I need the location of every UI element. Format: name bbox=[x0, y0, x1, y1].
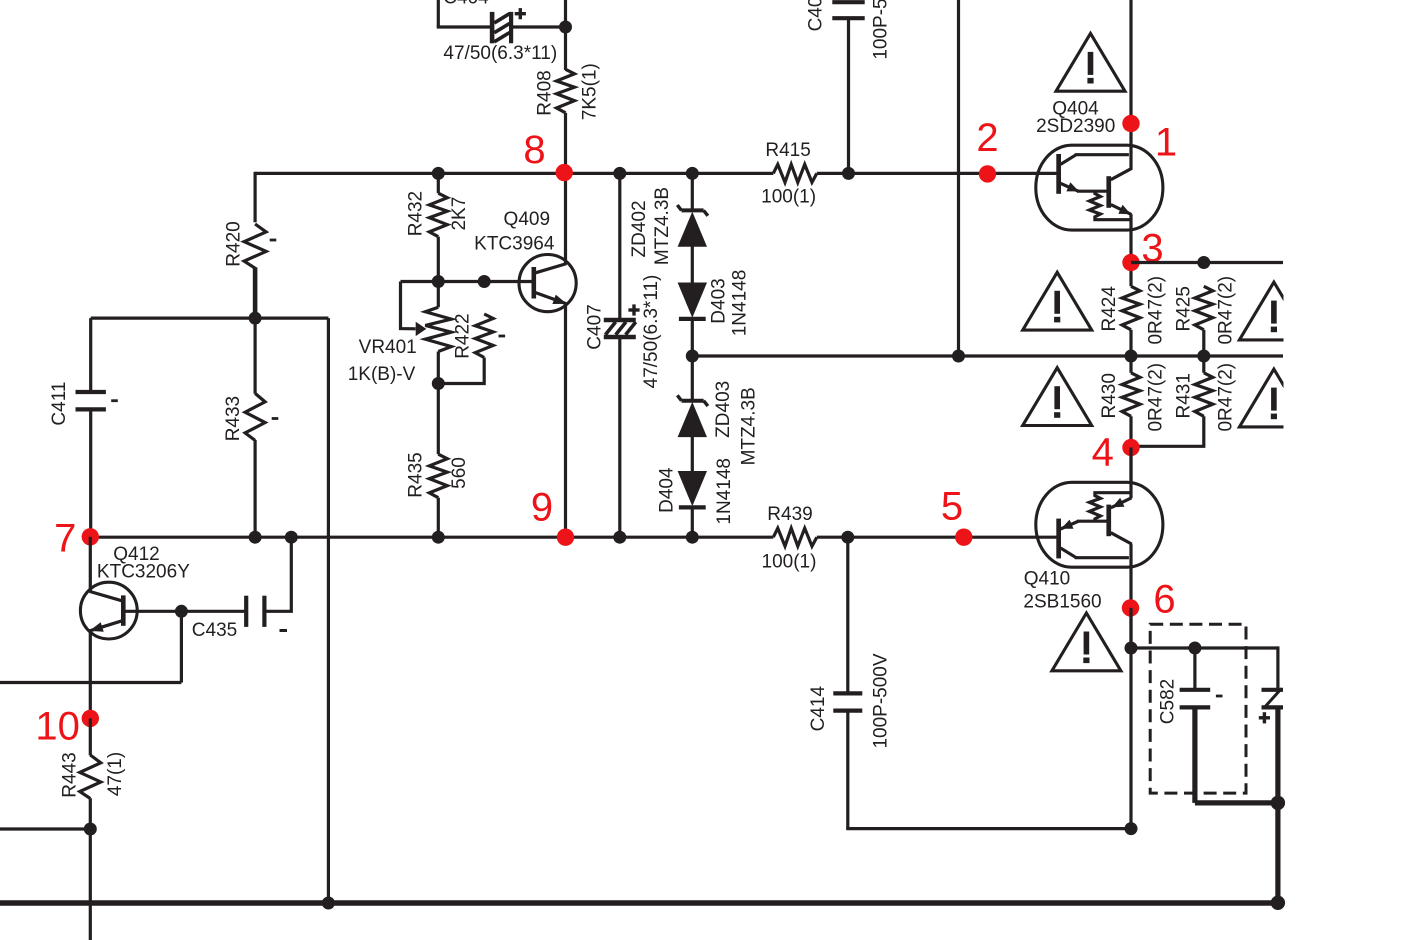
warning triangle right of R425 (clipped) bbox=[1239, 282, 1308, 340]
plus mark right cap bbox=[1259, 716, 1270, 719]
wire C407 bottom lead bbox=[618, 336, 621, 537]
wire row-537 right segment bbox=[817, 536, 1057, 539]
diode D403 bbox=[678, 283, 707, 318]
resistor R424 bbox=[1122, 286, 1140, 330]
svg-text:0R47(2): 0R47(2) bbox=[1146, 276, 1167, 345]
tick C435 bbox=[280, 629, 288, 632]
svg-text:R443: R443 bbox=[60, 752, 81, 797]
resistor R439 bbox=[773, 528, 817, 546]
transistor Q412 emitter arrow bbox=[89, 622, 103, 632]
wire Q410 emitter to node 6 bbox=[1129, 544, 1132, 648]
wire C411 bottom lead bbox=[89, 410, 92, 537]
junction C582 top bbox=[1188, 642, 1201, 655]
junction Q412 base bbox=[175, 605, 188, 618]
wire top-left vertical to C404 bbox=[437, 0, 440, 27]
tick R420 bbox=[270, 239, 277, 242]
resistor R435 bbox=[429, 454, 447, 498]
wire R435 to row-537 bbox=[437, 498, 440, 538]
wire row-281 base bbox=[401, 280, 532, 283]
node 7 bbox=[82, 528, 99, 545]
resistor R408 bbox=[557, 69, 575, 113]
wire node8 to Q409 collector bbox=[564, 173, 567, 264]
junction row-802 bbox=[1271, 796, 1285, 810]
wire x328 vertical bbox=[327, 318, 330, 903]
tick R422 bbox=[499, 335, 506, 338]
junction row-537 C407 bbox=[613, 531, 626, 544]
svg-text:D404: D404 bbox=[656, 467, 677, 513]
tick C582 bbox=[1216, 695, 1223, 698]
junction x958/row-356 bbox=[952, 350, 965, 363]
transistor Q409 base bar bbox=[532, 267, 537, 299]
junction row-537 D404 bbox=[686, 531, 699, 544]
svg-text:2K7: 2K7 bbox=[449, 197, 470, 231]
junction row-8 C407 bbox=[613, 167, 626, 180]
svg-text:C411: C411 bbox=[49, 382, 70, 426]
svg-text:Q409: Q409 bbox=[504, 209, 550, 230]
svg-text:ZD403: ZD403 bbox=[713, 381, 734, 438]
junction R433/row-537 bbox=[249, 531, 262, 544]
wire C582 bottom lead (bold) bbox=[1192, 707, 1197, 803]
junction row-262 R425 bbox=[1197, 256, 1210, 269]
resistor R415 bbox=[773, 164, 817, 182]
junction row-8 R432 bbox=[432, 167, 445, 180]
svg-text:0R47(2): 0R47(2) bbox=[1146, 363, 1167, 432]
resistor R431 bbox=[1195, 373, 1213, 417]
svg-text:7K5(1): 7K5(1) bbox=[580, 63, 601, 120]
svg-text:C407: C407 bbox=[584, 304, 605, 349]
potentiometer VR401 bbox=[425, 307, 451, 351]
svg-text:C435: C435 bbox=[192, 620, 237, 641]
resistor R432 bbox=[429, 193, 447, 237]
svg-text:Q410: Q410 bbox=[1024, 568, 1070, 589]
junction C406/R415 row bbox=[842, 167, 855, 180]
svg-text:2SB1560: 2SB1560 bbox=[1023, 591, 1101, 612]
svg-text:C40: C40 bbox=[805, 0, 826, 31]
capacitor C414 bbox=[833, 691, 862, 695]
svg-text:47/50(6.3*11): 47/50(6.3*11) bbox=[641, 275, 662, 389]
junction row-8 ZD402 bbox=[686, 167, 699, 180]
wire C582 top lead bbox=[1193, 648, 1196, 688]
dashed box C582 bbox=[1150, 624, 1246, 793]
node 8 bbox=[556, 164, 573, 181]
svg-text:R430: R430 bbox=[1099, 373, 1120, 418]
capacitor C404 (electrolytic, hatched) bbox=[490, 12, 495, 43]
wire C414 bottom lead bbox=[846, 711, 849, 829]
svg-text:D403: D403 bbox=[708, 278, 729, 323]
svg-text:MTZ4.3B: MTZ4.3B bbox=[652, 187, 673, 265]
wire row-829 to left edge bbox=[0, 827, 90, 830]
wire Q409 emitter to node 9 bbox=[564, 304, 567, 538]
svg-text:C404: C404 bbox=[443, 0, 489, 8]
svg-text:KTC3964: KTC3964 bbox=[474, 233, 555, 254]
capacitor C435 bbox=[244, 596, 248, 627]
wire R430 to node 4 bbox=[1129, 416, 1132, 483]
svg-text:R432: R432 bbox=[406, 191, 427, 236]
svg-text:KTC3206Y: KTC3206Y bbox=[97, 561, 190, 582]
node 2 bbox=[979, 165, 996, 182]
wire R424 bottom bbox=[1129, 330, 1132, 356]
svg-text:560: 560 bbox=[449, 457, 470, 489]
node 10 bbox=[82, 710, 99, 727]
svg-text:100(1): 100(1) bbox=[761, 187, 816, 208]
zener ZD403 bbox=[682, 399, 704, 403]
svg-text:R433: R433 bbox=[223, 396, 244, 441]
svg-text:R431: R431 bbox=[1174, 373, 1195, 418]
svg-text:1N4148: 1N4148 bbox=[729, 270, 750, 337]
wire ZD403-D404 bbox=[691, 436, 694, 471]
svg-text:9: 9 bbox=[531, 485, 553, 529]
wire Q412 base bbox=[123, 610, 245, 613]
warning triangle above Q404 bbox=[1056, 33, 1125, 91]
wire x565 top bbox=[564, 0, 567, 70]
wire x958 vertical bbox=[957, 0, 960, 356]
wire Q404 emitter to node 3 bbox=[1129, 214, 1132, 286]
capacitor C583 (right edge, clipped) bbox=[1262, 689, 1284, 709]
svg-text:R424: R424 bbox=[1099, 286, 1120, 332]
wire R425 bottom bbox=[1202, 330, 1205, 356]
wire R443 bottom bbox=[89, 798, 92, 940]
svg-text:MTZ4.3B: MTZ4.3B bbox=[738, 387, 759, 465]
wire row-802 (bold) bbox=[1195, 800, 1278, 805]
wire R431 bottom corner bbox=[1131, 416, 1204, 446]
svg-text:2: 2 bbox=[976, 116, 998, 160]
wire right cap bottom lead (bold) bbox=[1275, 707, 1280, 903]
wire row-8 right segment bbox=[817, 172, 1057, 175]
junction row-537 C435 bbox=[285, 531, 298, 544]
warning triangle left of R424 bbox=[1023, 272, 1092, 330]
wire C414 top lead bbox=[846, 537, 849, 691]
svg-text:10: 10 bbox=[35, 705, 80, 749]
svg-text:0R47(2): 0R47(2) bbox=[1216, 363, 1237, 432]
svg-text:47/50(6.3*11): 47/50(6.3*11) bbox=[443, 43, 557, 64]
transistor Q412 collector diagonal bbox=[90, 591, 123, 600]
resistor R443 bbox=[80, 755, 101, 799]
capacitor C407 (electrolytic, hatched) bbox=[604, 318, 636, 323]
transistor Q409 circle bbox=[519, 255, 576, 312]
svg-text:100(1): 100(1) bbox=[762, 551, 817, 572]
wire C435 to row-537 bbox=[266, 537, 291, 611]
wire R443 top bbox=[89, 718, 92, 755]
svg-text:C414: C414 bbox=[808, 686, 829, 732]
node 4 bbox=[1122, 439, 1139, 456]
wire VR401 to junction bbox=[437, 352, 440, 384]
wiper arrow VR401 bbox=[416, 322, 427, 336]
wire C404 right lead bbox=[513, 25, 566, 28]
junction x328/bottom rail bbox=[322, 897, 335, 910]
junction C404/R408 bbox=[559, 21, 572, 34]
wire R432 to row-281 bbox=[437, 237, 440, 308]
warning triangle below Q410 bbox=[1052, 613, 1121, 671]
zener ZD402 bbox=[682, 208, 704, 212]
resistor R433 bbox=[245, 393, 265, 440]
wire D403 to row-356 bbox=[691, 320, 694, 402]
svg-text:R439: R439 bbox=[767, 504, 812, 525]
svg-text:R425: R425 bbox=[1174, 286, 1195, 331]
svg-text:1: 1 bbox=[1155, 120, 1177, 164]
resistor R422 bbox=[475, 314, 493, 358]
wire base branch down bbox=[180, 611, 183, 682]
svg-text:ZD402: ZD402 bbox=[629, 200, 650, 257]
wire C407 top lead bbox=[618, 173, 621, 320]
wire row-356 bbox=[692, 354, 1283, 357]
wire x1131 node6 down bbox=[1129, 608, 1132, 829]
svg-text:100P-5: 100P-5 bbox=[870, 0, 891, 60]
wire node7 to Q412 collector bbox=[89, 537, 92, 592]
resistor R425 bbox=[1195, 286, 1213, 330]
diode D404 bbox=[678, 471, 707, 506]
svg-text:R415: R415 bbox=[765, 140, 810, 161]
plus mark C407 bbox=[628, 308, 639, 311]
wire to ZD402 bbox=[691, 173, 694, 211]
transistor Q410 (darlington) bbox=[1036, 482, 1163, 567]
node 3 bbox=[1122, 254, 1139, 271]
wire ZD402-D403 bbox=[691, 246, 694, 283]
node 6 bbox=[1122, 599, 1139, 616]
svg-text:100P-500V: 100P-500V bbox=[870, 653, 891, 748]
capacitor C406 (cut at top) bbox=[832, 0, 864, 4]
svg-text:R422: R422 bbox=[452, 313, 473, 358]
tick R433 bbox=[272, 417, 279, 420]
junction R424/row-356 bbox=[1125, 350, 1138, 363]
junction x438/row-383 bbox=[432, 377, 445, 390]
transistor Q412 base bar bbox=[121, 595, 126, 625]
junction x1131/row-828 bbox=[1125, 822, 1138, 835]
svg-text:4: 4 bbox=[1092, 431, 1114, 475]
junction x255/row-318 bbox=[249, 312, 262, 325]
wire row-828 bbox=[846, 827, 1131, 830]
junction R435/row-537 bbox=[432, 531, 445, 544]
junction R425/row-356 bbox=[1197, 350, 1210, 363]
svg-text:2SD2390: 2SD2390 bbox=[1036, 116, 1115, 137]
junction row-281 R422 bbox=[478, 275, 491, 288]
wire R420 top bbox=[254, 172, 257, 223]
transistor Q409 collector diagonal bbox=[536, 264, 567, 273]
svg-text:0R47(2): 0R47(2) bbox=[1216, 276, 1237, 345]
svg-text:C582: C582 bbox=[1157, 679, 1178, 724]
svg-text:7: 7 bbox=[54, 517, 76, 561]
warning triangle left of R430 bbox=[1023, 368, 1092, 426]
warning triangle right of R431 (clipped) bbox=[1239, 369, 1308, 427]
transistor Q412 circle bbox=[80, 582, 137, 639]
wire Q410 top lead bbox=[1129, 448, 1132, 499]
wire row-682 to left edge bbox=[0, 681, 181, 684]
junction row-281 left bbox=[432, 275, 445, 288]
transistor Q409 emitter diagonal bbox=[536, 293, 567, 304]
wire row-8 left segment bbox=[255, 172, 773, 175]
resistor R420 bbox=[244, 224, 266, 268]
wire R432 top bbox=[437, 173, 440, 193]
junction row-829 bbox=[84, 823, 97, 836]
svg-text:6: 6 bbox=[1153, 577, 1175, 621]
svg-text:R408: R408 bbox=[534, 70, 555, 115]
wire right cap top lead bbox=[1276, 646, 1279, 688]
svg-text:47(1): 47(1) bbox=[105, 752, 126, 796]
wire row-318 bbox=[91, 317, 329, 320]
junction x692/row-356 bbox=[686, 350, 699, 363]
transistor Q412 emitter diagonal bbox=[90, 621, 122, 631]
bottom rail (bold) bbox=[0, 900, 1283, 905]
svg-text:R435: R435 bbox=[406, 452, 427, 497]
wire R430 top bbox=[1129, 356, 1132, 373]
wire row-262 node3 bbox=[1131, 261, 1283, 264]
svg-text:R420: R420 bbox=[223, 221, 244, 266]
wire collector lead Q404 top bbox=[1129, 0, 1132, 170]
wire R433 to row-537 bbox=[254, 440, 257, 537]
wire R420 to junction bbox=[253, 267, 258, 318]
node 9 bbox=[557, 529, 574, 546]
capacitor C582 bbox=[1180, 688, 1211, 692]
wiper VR401 bbox=[401, 282, 416, 329]
svg-text:8: 8 bbox=[523, 128, 545, 172]
wire C411 top lead bbox=[89, 318, 92, 391]
wire C406 lead down bbox=[847, 18, 850, 173]
wire R422 bottom corner bbox=[437, 358, 485, 384]
node 5 bbox=[955, 529, 972, 546]
transistor Q404 (darlington) bbox=[1036, 145, 1163, 230]
wire R431 top bbox=[1202, 356, 1205, 373]
svg-text:VR401: VR401 bbox=[359, 337, 417, 358]
svg-text:1K(B)-V: 1K(B)-V bbox=[348, 364, 416, 385]
tick C411 bbox=[111, 399, 118, 402]
plus mark C404 bbox=[515, 12, 526, 15]
wire C404 left lead bbox=[437, 25, 490, 28]
wire row-648 to right bbox=[1131, 646, 1278, 649]
node 1 bbox=[1122, 115, 1139, 132]
svg-text:1N4148: 1N4148 bbox=[714, 458, 735, 525]
wire to R435 bbox=[437, 384, 440, 455]
wire D404 to row-537 bbox=[691, 508, 694, 537]
junction x1131/row-648 bbox=[1125, 642, 1138, 655]
transistor Q409 emitter arrow bbox=[552, 295, 566, 304]
resistor R430 bbox=[1122, 373, 1140, 417]
wire R408 to node 8 bbox=[564, 113, 567, 174]
capacitor C411 bbox=[76, 390, 106, 394]
svg-text:5: 5 bbox=[941, 484, 963, 528]
wire Q412 emitter to node 10 bbox=[89, 630, 92, 718]
wire row-537 left segment bbox=[90, 536, 773, 539]
junction row-537 C414 bbox=[841, 531, 854, 544]
junction bottom rail right bbox=[1271, 896, 1285, 910]
